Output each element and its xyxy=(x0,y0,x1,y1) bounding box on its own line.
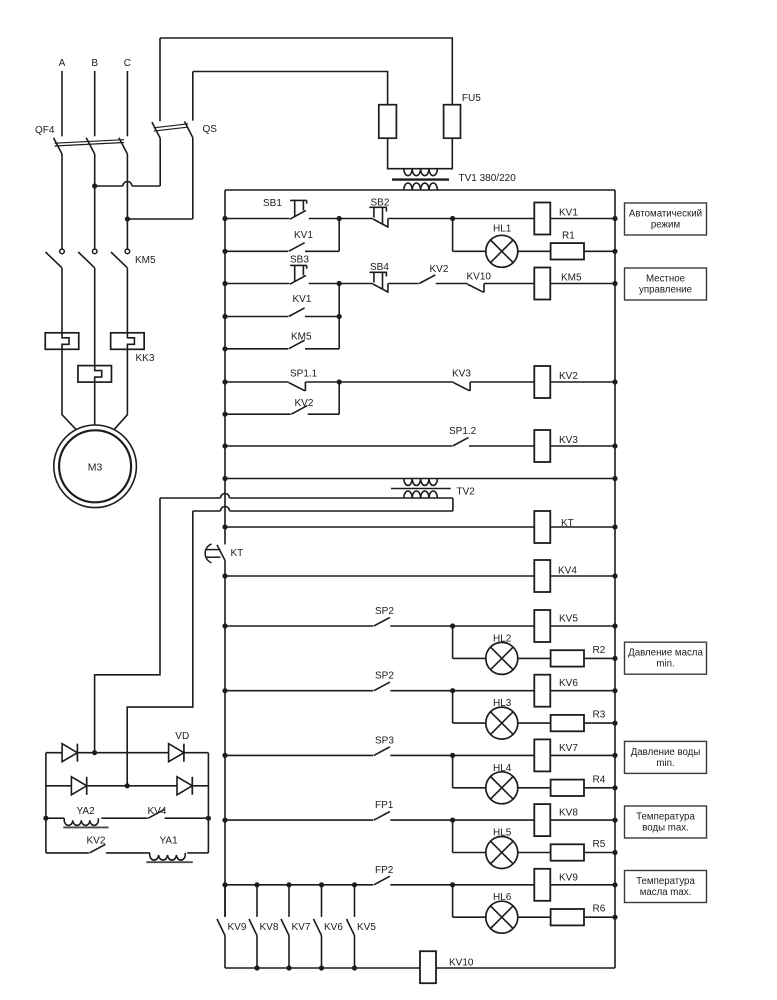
svg-text:SP1.1: SP1.1 xyxy=(290,369,318,380)
node SP2 row left xyxy=(222,623,227,628)
lamp HL5 xyxy=(486,828,518,869)
wire KV9 row c xyxy=(550,882,617,887)
relay coil KV9 xyxy=(534,869,578,901)
contact KV2 xyxy=(419,264,449,284)
wire row3/4/5 riser xyxy=(338,284,340,349)
wire SP2 row b xyxy=(390,688,534,693)
wire KV5 row c xyxy=(550,623,617,628)
wire right bus xyxy=(614,190,616,968)
wire HL2 to R2 xyxy=(518,657,551,659)
transformer TV2 xyxy=(391,479,475,499)
wire KM5 to KK3 (phase B) xyxy=(94,268,96,366)
svg-text:M3: M3 xyxy=(88,462,103,474)
svg-text:YA1: YA1 xyxy=(160,836,179,847)
wire SP3 row a xyxy=(225,754,373,756)
node row8 left xyxy=(222,443,227,448)
svg-text:KV2: KV2 xyxy=(559,371,578,382)
wire QF4 to KM5 (phase A) xyxy=(61,154,63,249)
relay coil KV5 xyxy=(534,610,578,642)
wire phase A xyxy=(61,71,63,136)
circuit breaker QF4 xyxy=(35,125,127,154)
wire row6 segment b xyxy=(305,379,453,384)
wire row6 segment a xyxy=(225,381,289,383)
wire KT row a xyxy=(225,526,534,528)
svg-text:Давление воды: Давление воды xyxy=(631,747,701,758)
wire HL3 to R3 xyxy=(518,722,551,724)
wire HL6 to R6 xyxy=(518,916,551,918)
svg-text:KV6: KV6 xyxy=(559,678,578,689)
node row3 left xyxy=(222,281,227,286)
contact KV2 (parallel SP1.1) xyxy=(291,398,314,414)
svg-text:Давление масла: Давление масла xyxy=(628,648,703,659)
wire R1 to right bus xyxy=(584,249,618,254)
svg-text:Автоматический: Автоматический xyxy=(629,209,702,220)
wire SP2 row b xyxy=(390,623,534,628)
svg-text:C: C xyxy=(124,58,131,69)
svg-text:SB3: SB3 xyxy=(290,255,309,266)
wire R4 to right bus xyxy=(584,785,618,790)
diode VD2 xyxy=(169,731,190,762)
wire row3 segment c xyxy=(388,283,419,285)
svg-text:SP3: SP3 xyxy=(375,735,394,746)
wire QS pole 1 to fuse FU5-2 xyxy=(160,38,452,105)
resistor R1 xyxy=(551,231,584,260)
wire phase B tap to QS pole 1 xyxy=(95,182,161,186)
pushbutton SB3 xyxy=(290,255,309,285)
electromagnet coil YA2 xyxy=(63,806,108,827)
resistor R3 xyxy=(551,710,606,732)
resistor R5 xyxy=(551,839,606,861)
sensor contact SP2 xyxy=(374,671,394,691)
wire KK3 to motor (phase A) xyxy=(62,349,76,429)
svg-text:KM5: KM5 xyxy=(291,332,312,343)
wire HL1 to R1 xyxy=(518,250,551,252)
annotation box Автоматический режим xyxy=(625,203,707,235)
contact KV8 (interlock column) xyxy=(249,882,279,970)
contact KV10 xyxy=(467,272,492,293)
motor M3 xyxy=(54,425,137,508)
wire HL1 branch riser xyxy=(453,219,486,252)
svg-text:KV6: KV6 xyxy=(324,922,343,933)
wire left bus upper xyxy=(224,190,226,544)
relay coil KV4 xyxy=(534,560,577,592)
svg-text:HL6: HL6 xyxy=(493,892,512,903)
relay coil KV3 xyxy=(534,430,578,462)
wire row6 segment c xyxy=(470,381,534,383)
wire row1 segment a xyxy=(225,218,289,220)
svg-text:KV8: KV8 xyxy=(559,808,578,819)
node KT row left xyxy=(222,524,227,529)
svg-text:HL4: HL4 xyxy=(493,763,512,774)
wire QF4 to KM5 (phase B) xyxy=(92,154,97,249)
svg-text:VD: VD xyxy=(175,731,189,742)
svg-text:KV9: KV9 xyxy=(228,922,247,933)
wire row8 segment a xyxy=(225,445,452,447)
lamp HL3 xyxy=(486,698,518,739)
relay coil KV8 xyxy=(534,804,578,836)
svg-text:KV9: KV9 xyxy=(559,872,578,883)
svg-text:воды max.: воды max. xyxy=(642,823,689,834)
contact KM5 (aux) xyxy=(289,332,312,349)
fuse FU5 left xyxy=(379,105,397,139)
wire row8 segment c xyxy=(550,443,617,448)
resistor R4 xyxy=(551,774,606,796)
annotation box Температура воды max. xyxy=(625,806,707,838)
wire HL4 branch xyxy=(453,755,486,787)
lamp HL4 xyxy=(486,763,518,804)
wire row2 segment a xyxy=(225,250,288,252)
wire phase C tap to QS pole 2 xyxy=(127,218,192,220)
diode VD4 xyxy=(177,777,192,795)
svg-text:TV2: TV2 xyxy=(457,487,476,498)
thermal relay KK3 heater phase C xyxy=(111,333,155,364)
wire HL5 branch xyxy=(453,820,486,852)
svg-text:KV2: KV2 xyxy=(87,836,106,847)
svg-text:Температура: Температура xyxy=(636,812,695,823)
svg-text:SB2: SB2 xyxy=(371,198,390,209)
wire bridge left rail xyxy=(45,753,47,853)
svg-text:KV1: KV1 xyxy=(294,230,313,241)
wire row6/7 riser xyxy=(338,382,340,414)
svg-text:KV3: KV3 xyxy=(452,369,471,380)
wire phase B xyxy=(94,71,96,136)
wire SP2 row a xyxy=(225,625,373,627)
wire row1 segment b xyxy=(309,216,373,221)
svg-text:HL3: HL3 xyxy=(493,698,512,709)
wire row1 segment d xyxy=(550,216,617,221)
wire KV4 row b xyxy=(550,573,617,578)
svg-text:YA2: YA2 xyxy=(77,806,96,817)
thermal relay KK3 heater phase A xyxy=(45,333,79,350)
svg-text:SP1.2: SP1.2 xyxy=(449,426,477,437)
wire HL2 branch xyxy=(453,626,486,658)
wire bottom rail right xyxy=(436,967,615,969)
electromagnet coil YA1 xyxy=(146,836,192,863)
svg-text:FU5: FU5 xyxy=(462,93,481,104)
wire HL4 to R4 xyxy=(518,787,551,789)
svg-text:KV5: KV5 xyxy=(559,614,578,625)
sensor contact FP1 xyxy=(374,800,394,820)
wire row3 segment e xyxy=(484,283,534,285)
svg-text:SB4: SB4 xyxy=(370,262,389,273)
wire row7 segment a xyxy=(225,413,291,415)
svg-text:KT: KT xyxy=(231,548,244,559)
svg-text:R6: R6 xyxy=(593,904,606,915)
wire row3 segment f xyxy=(550,281,617,286)
svg-text:масла max.: масла max. xyxy=(640,887,692,898)
annotation box Давление масла min. xyxy=(625,642,707,674)
wire KV4 row a xyxy=(225,575,534,577)
pushbutton SB2 xyxy=(369,198,389,228)
wire R2 to right bus xyxy=(584,656,618,661)
wire KV6 row c xyxy=(550,688,617,693)
svg-text:KM5: KM5 xyxy=(135,255,156,266)
wire YA1 row b xyxy=(106,852,193,854)
node row6 left xyxy=(222,379,227,384)
wire KV7 row c xyxy=(550,753,617,758)
relay coil KV1 xyxy=(534,203,578,235)
wire QF4 to KM5 (phase C) xyxy=(125,154,130,249)
lamp HL1 xyxy=(486,224,518,268)
wire bridge right rail xyxy=(207,753,209,853)
wire TV2 secondary left drop xyxy=(95,498,160,753)
svg-text:TV1 380/220: TV1 380/220 xyxy=(459,173,517,184)
wire KM5 to KK3 (phase A) xyxy=(61,268,63,333)
wire YA1 row a xyxy=(46,852,89,854)
wire FP2 row a xyxy=(225,884,373,886)
wire SP2 row a xyxy=(225,690,373,692)
wire row6 segment d xyxy=(550,379,617,384)
wire TV2 secondary right drop xyxy=(127,511,193,786)
svg-text:R5: R5 xyxy=(593,839,606,850)
contact KV6 (interlock column) xyxy=(314,882,344,970)
wire FP1 row b xyxy=(390,818,534,823)
svg-text:SB1: SB1 xyxy=(263,198,282,209)
wire bottom rail left xyxy=(225,967,420,969)
wire SP3 row b xyxy=(390,753,534,758)
wire HL3 branch xyxy=(453,691,486,723)
node C xyxy=(124,58,131,69)
wire top rail (TV1 secondary bus) xyxy=(225,189,615,191)
svg-text:KM5: KM5 xyxy=(561,273,582,284)
node KV4 row left xyxy=(222,573,227,578)
node A xyxy=(59,58,66,69)
svg-text:Местное: Местное xyxy=(646,274,685,285)
node FP2 row left xyxy=(222,882,227,887)
svg-text:QF4: QF4 xyxy=(35,125,55,136)
svg-text:KV2: KV2 xyxy=(430,264,449,275)
thermal relay KK3 heater phase B xyxy=(78,366,112,383)
svg-text:HL2: HL2 xyxy=(493,633,512,644)
wire FP2 row b xyxy=(390,882,534,887)
svg-text:R4: R4 xyxy=(593,774,606,785)
pressure switch contact SP1.2 xyxy=(449,426,477,446)
svg-text:Температура: Температура xyxy=(636,876,695,887)
wire row3 segment a xyxy=(225,283,289,285)
svg-text:KV10: KV10 xyxy=(467,272,492,283)
wire HL6 branch xyxy=(453,885,486,917)
time relay coil KT xyxy=(534,511,573,543)
pushbutton SB1 xyxy=(263,198,307,219)
wire row4 segment a xyxy=(225,316,288,318)
wire row1 segment c xyxy=(388,216,534,221)
resistor R6 xyxy=(551,904,606,926)
wire KK3 to motor (phase C) xyxy=(114,349,127,429)
node FP1 row left xyxy=(222,818,227,823)
contact KV3 xyxy=(452,369,471,392)
wire QS pole 2 to fuse FU5-1 xyxy=(193,72,388,105)
contactor coil KM5 xyxy=(534,268,582,300)
annotation box Местное управление xyxy=(625,268,707,300)
wire R6 to right bus xyxy=(584,915,618,920)
contact KV4 (YA2 branch) xyxy=(148,806,167,818)
svg-text:A: A xyxy=(59,58,66,69)
svg-text:R1: R1 xyxy=(562,231,575,242)
node row4 left xyxy=(222,314,227,319)
wire row5 segment a xyxy=(225,348,288,350)
svg-text:KV7: KV7 xyxy=(559,743,578,754)
transformer TV1 380/220 xyxy=(392,169,516,190)
svg-text:KV3: KV3 xyxy=(559,435,578,446)
wire KT row b xyxy=(550,524,617,529)
contact KV5 (interlock column) xyxy=(347,882,377,970)
wire diode row 1 xyxy=(46,750,209,755)
node row2 left xyxy=(222,249,227,254)
wire row4 segment b xyxy=(305,314,342,319)
svg-text:HL5: HL5 xyxy=(493,828,512,839)
wire FP1 row a xyxy=(225,819,373,821)
wire row5 segment b xyxy=(305,348,339,350)
wire phase C xyxy=(126,71,128,136)
wire row2 riser to row1 xyxy=(338,219,340,252)
wire KV8 row c xyxy=(550,818,617,823)
pressure switch contact SP1.1 xyxy=(289,369,318,392)
relay coil KV6 xyxy=(534,675,578,707)
svg-text:FP1: FP1 xyxy=(375,800,394,811)
wire TV2 secondary lower xyxy=(193,498,453,511)
sensor contact FP2 xyxy=(374,865,394,885)
svg-text:KV2: KV2 xyxy=(295,398,314,409)
lamp HL2 xyxy=(486,633,518,674)
node row7 left xyxy=(222,412,227,417)
node SP3 row left xyxy=(222,753,227,758)
svg-text:KV7: KV7 xyxy=(292,922,311,933)
diode VD1 xyxy=(62,744,77,762)
sensor contact SP3 xyxy=(374,735,394,755)
wire R5 to right bus xyxy=(584,850,618,855)
wire fuses to TV1 primary xyxy=(388,138,453,169)
wire row8 segment b xyxy=(469,445,534,447)
wire KM5 to KK3 (phase C) xyxy=(126,268,128,333)
svg-text:HL1: HL1 xyxy=(493,224,512,235)
wire row2 segment b xyxy=(305,250,339,252)
svg-text:режим: режим xyxy=(651,220,680,231)
relay coil KV2 xyxy=(534,366,578,398)
svg-text:R3: R3 xyxy=(593,710,606,721)
wire YA2 row b xyxy=(165,816,211,821)
wire TV2 secondary upper xyxy=(160,494,453,499)
contactor KM5 main contacts xyxy=(46,249,157,268)
svg-text:KV1: KV1 xyxy=(559,208,578,219)
contact KV7 (interlock column) xyxy=(281,882,311,970)
contact KV9 (interlock column) xyxy=(217,885,247,968)
svg-text:SP2: SP2 xyxy=(375,606,394,617)
svg-text:min.: min. xyxy=(656,758,674,769)
node B xyxy=(91,58,98,69)
node SP2 row left xyxy=(222,688,227,693)
resistor R2 xyxy=(551,645,606,667)
node TV2 row left xyxy=(222,476,227,481)
node row5 left xyxy=(222,346,227,351)
switch QS xyxy=(152,38,217,219)
wire diode row 2 xyxy=(46,783,209,788)
svg-text:KV5: KV5 xyxy=(357,922,376,933)
relay coil KV7 xyxy=(534,739,578,771)
wire YA2 row xyxy=(43,816,147,821)
relay coil KV10 xyxy=(420,951,474,983)
wire left bus lower xyxy=(224,561,226,917)
node row1 left xyxy=(222,216,227,221)
svg-text:R2: R2 xyxy=(593,645,606,656)
svg-text:KK3: KK3 xyxy=(136,353,155,364)
diode VD3 xyxy=(71,777,86,795)
pushbutton SB4 xyxy=(369,262,389,293)
svg-text:KV4: KV4 xyxy=(558,566,577,577)
sensor contact SP2 xyxy=(374,606,394,626)
svg-text:KV4: KV4 xyxy=(148,806,167,817)
svg-text:управление: управление xyxy=(639,285,692,296)
svg-text:QS: QS xyxy=(203,124,218,135)
wire row3 segment d xyxy=(436,283,468,285)
svg-text:KV1: KV1 xyxy=(293,294,312,305)
wire HL5 to R5 xyxy=(518,852,551,854)
lamp HL6 xyxy=(486,892,518,933)
svg-text:min.: min. xyxy=(656,659,674,670)
svg-text:KV10: KV10 xyxy=(449,958,474,969)
svg-text:FP2: FP2 xyxy=(375,865,394,876)
wire row7 segment b xyxy=(308,413,340,415)
svg-text:SP2: SP2 xyxy=(375,671,394,682)
contact KV1 (seal-in) xyxy=(289,230,314,251)
annotation box Температура масла max. xyxy=(625,871,707,903)
svg-text:KV8: KV8 xyxy=(260,922,279,933)
wire YA1 row c xyxy=(193,852,209,854)
annotation box Давление воды min. xyxy=(625,741,707,773)
wire row3 segment b xyxy=(309,281,373,286)
wire R3 to right bus xyxy=(584,721,618,726)
wire TV2 primary row xyxy=(225,476,618,481)
contact KV1 (local mode) xyxy=(289,294,312,317)
contact KV2 (YA1 branch) xyxy=(87,836,106,853)
time contact KT xyxy=(205,544,243,563)
fuse FU5 right xyxy=(444,93,482,138)
svg-text:B: B xyxy=(91,58,98,69)
wire KK3 to motor (phase B) xyxy=(94,382,96,425)
